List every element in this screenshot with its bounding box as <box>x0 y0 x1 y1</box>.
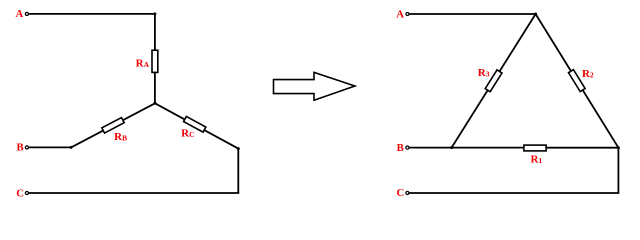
wire A to apex <box>409 13 535 15</box>
svg-text:B: B <box>16 142 23 154</box>
wire apex to B node (left side of triangle) <box>452 14 536 148</box>
junction B (left) <box>70 146 73 149</box>
junction right node (right circuit) <box>617 146 620 149</box>
svg-text:RC: RC <box>181 128 194 140</box>
junction top corner <box>153 12 156 15</box>
svg-text:RA: RA <box>136 57 150 69</box>
wire bottom side right part <box>546 147 618 149</box>
wire center node to right corner <box>155 103 238 148</box>
terminal A (left) <box>25 12 28 15</box>
wire right node down <box>617 148 619 193</box>
terminal B (left) <box>25 146 28 149</box>
wire junction to terminal B <box>29 146 72 148</box>
svg-text:C: C <box>396 187 404 199</box>
svg-text:R2: R2 <box>582 68 594 80</box>
wire center node to B junction <box>71 103 155 147</box>
wire bottom side left part <box>452 147 525 149</box>
terminal B (right) <box>406 146 409 149</box>
svg-text:C: C <box>16 187 24 199</box>
svg-text:R3: R3 <box>478 67 490 79</box>
resistor R1 <box>524 145 546 151</box>
terminal C (left) <box>25 191 28 194</box>
terminal A (right) <box>406 12 409 15</box>
wire bottom to terminal C <box>29 192 240 194</box>
wire down to RA <box>154 14 156 51</box>
svg-text:A: A <box>15 8 23 20</box>
arrow wye-to-delta <box>274 72 355 100</box>
svg-text:B: B <box>397 142 404 154</box>
resistor RA <box>152 50 158 72</box>
wire RA to center node <box>154 72 156 103</box>
wire apex to right node (right side of triangle) <box>536 14 619 148</box>
resistor R2 <box>568 70 585 92</box>
junction right corner (left circuit) <box>237 147 240 150</box>
terminal C (right) <box>406 191 409 194</box>
resistor R3 <box>485 70 502 92</box>
junction apex <box>534 13 537 16</box>
center node of wye <box>154 102 157 105</box>
svg-text:RB: RB <box>114 131 127 143</box>
wire B to left node <box>409 147 452 149</box>
junction B node (right circuit) <box>450 146 453 149</box>
wire A to top corner <box>29 13 155 15</box>
svg-text:R1: R1 <box>531 154 543 166</box>
resistor RB <box>102 118 124 133</box>
wire corner down <box>237 149 239 193</box>
wire bottom to terminal C (right) <box>409 192 619 194</box>
svg-text:A: A <box>396 8 404 20</box>
resistor RC <box>184 116 206 132</box>
